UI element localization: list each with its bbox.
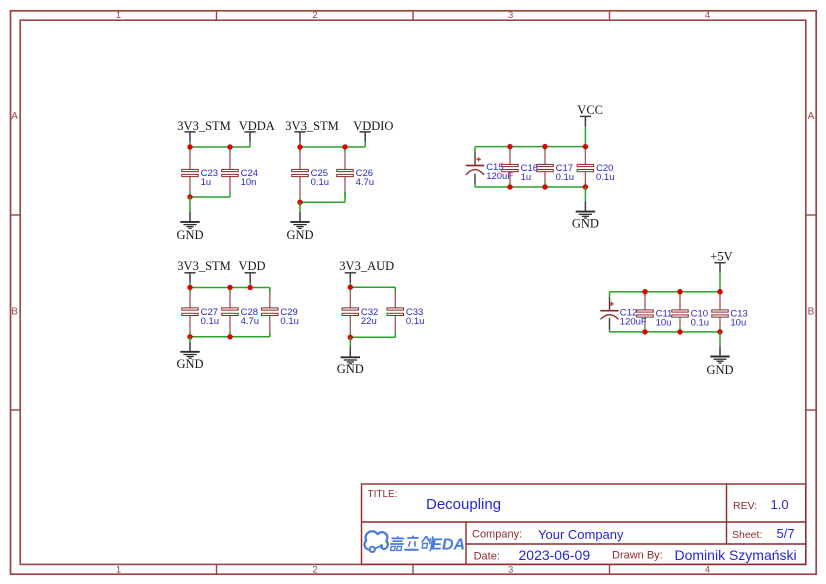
svg-text:1u: 1u (201, 177, 212, 188)
svg-text:4.7u: 4.7u (241, 316, 260, 327)
svg-text:A: A (11, 111, 18, 122)
svg-text:Decoupling: Decoupling (426, 496, 501, 513)
svg-text:1: 1 (116, 10, 121, 21)
svg-text:Your Company: Your Company (538, 527, 624, 542)
svg-text:VDDA: VDDA (239, 119, 275, 133)
svg-text:22u: 22u (361, 316, 377, 327)
svg-text:A: A (808, 111, 815, 122)
svg-text:Sheet:: Sheet: (732, 529, 762, 541)
svg-text:GND: GND (176, 357, 203, 371)
svg-text:Company:: Company: (472, 528, 522, 540)
svg-text:0.1u: 0.1u (311, 177, 330, 188)
svg-text:B: B (11, 307, 18, 318)
svg-text:+5V: +5V (710, 250, 732, 264)
svg-text:2: 2 (312, 565, 317, 576)
svg-text:0.1u: 0.1u (406, 316, 425, 327)
svg-text:10n: 10n (241, 177, 257, 188)
svg-text:3: 3 (508, 10, 513, 21)
svg-text:0.1u: 0.1u (280, 316, 299, 327)
svg-text:120uF: 120uF (620, 316, 647, 327)
svg-text:3: 3 (508, 565, 513, 576)
svg-text:4: 4 (705, 565, 710, 576)
svg-text:VDD: VDD (239, 259, 266, 273)
svg-text:0.1u: 0.1u (596, 172, 615, 183)
svg-text:VDDIO: VDDIO (353, 119, 393, 133)
svg-text:0.1u: 0.1u (556, 172, 575, 183)
svg-text:0.1u: 0.1u (691, 317, 710, 328)
svg-text:10u: 10u (730, 317, 746, 328)
svg-text:GND: GND (337, 362, 364, 376)
svg-text:1u: 1u (521, 172, 532, 183)
svg-text:GND: GND (706, 363, 733, 377)
svg-text:REV:: REV: (733, 500, 757, 512)
svg-text:TITLE:: TITLE: (368, 489, 398, 500)
svg-text:10u: 10u (656, 317, 672, 328)
svg-text:EDA: EDA (431, 537, 465, 554)
svg-text:GND: GND (572, 217, 599, 231)
svg-text:Drawn By:: Drawn By: (612, 550, 663, 562)
svg-text:GND: GND (286, 228, 313, 242)
svg-text:GND: GND (176, 228, 203, 242)
svg-text:2023-06-09: 2023-06-09 (519, 547, 591, 563)
svg-text:3V3_STM: 3V3_STM (285, 119, 338, 133)
svg-text:5/7: 5/7 (777, 526, 795, 541)
svg-text:1.0: 1.0 (771, 497, 789, 512)
svg-text:3V3_STM: 3V3_STM (177, 259, 230, 273)
svg-text:2: 2 (312, 10, 317, 21)
svg-text:Date:: Date: (474, 551, 500, 563)
svg-text:Dominik Szymański: Dominik Szymański (675, 547, 797, 563)
svg-text:120uF: 120uF (486, 171, 513, 182)
svg-text:4: 4 (705, 10, 710, 21)
svg-text:3V3_STM: 3V3_STM (177, 119, 230, 133)
svg-text:VCC: VCC (577, 103, 603, 117)
svg-text:1: 1 (116, 565, 121, 576)
svg-text:0.1u: 0.1u (201, 316, 220, 327)
svg-text:3V3_AUD: 3V3_AUD (339, 259, 394, 273)
svg-text:B: B (808, 307, 815, 318)
svg-text:4.7u: 4.7u (356, 177, 375, 188)
